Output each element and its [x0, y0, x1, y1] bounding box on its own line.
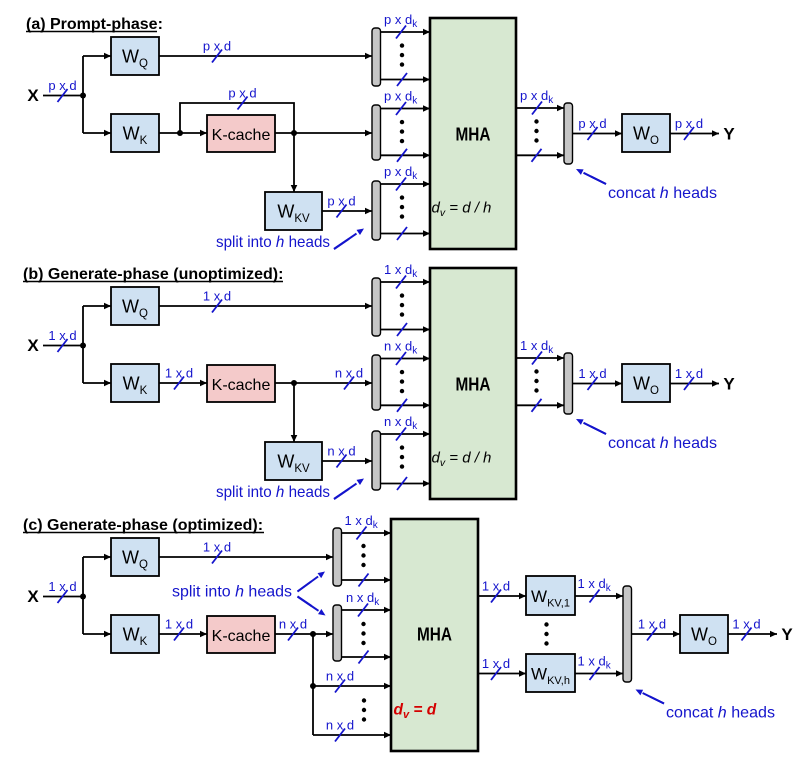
svg-text:1 x d: 1 x d: [578, 366, 606, 381]
slash on split bar 2 bottom wire (a): [397, 149, 407, 162]
slash on MHA bottom output (b): [532, 399, 542, 412]
wire split bar 1 bottom to MHA (a): [381, 76, 431, 83]
svg-text:1 x d: 1 x d: [165, 366, 193, 381]
wire split bar 2 bottom to MHA (a): [381, 152, 431, 159]
block WKV (b): [265, 442, 322, 480]
split bar 2 (b): [372, 355, 381, 410]
wire split bar 1 bottom to MHA (b): [381, 326, 431, 333]
slash on split bar 1 bottom wire (c): [359, 574, 369, 587]
block WQ (c): [111, 538, 159, 576]
wire V row 1 to MHA (c): [313, 683, 391, 690]
label 1 x d on MHA output 1 (c): [482, 579, 510, 603]
svg-text:dv = d: dv = d: [394, 702, 437, 722]
block WO (a): [622, 114, 670, 152]
ellipsis MHA output (a): [534, 119, 538, 142]
wire K-cache to split bar 2 (b): [275, 380, 372, 387]
wire WKV to split bar 3 (b): [322, 458, 372, 465]
section b title: [23, 266, 283, 283]
wire MHA output bottom to concat bar (a): [516, 152, 564, 159]
svg-text:K-cache: K-cache: [212, 628, 271, 645]
arrow to split bar 1 (c): [298, 572, 326, 592]
wire X branch vertical (a): [82, 56, 84, 133]
junction X branch (b): [80, 343, 86, 349]
wire K-cache bypass (a): [180, 103, 294, 133]
wire WQ to split bar 1 (c): [159, 554, 333, 561]
ellipsis split bar 1 (b): [400, 293, 404, 316]
svg-text:K-cache: K-cache: [212, 377, 271, 394]
wire concat bar to WO (b): [573, 380, 623, 387]
svg-text:1 x d: 1 x d: [203, 289, 231, 304]
ellipsis between WKV blocks (c): [544, 622, 548, 645]
section a title: [26, 16, 163, 33]
wire split bar 1 top to MHA (a): [381, 29, 431, 36]
wire MHA output bottom to concat bar (b): [516, 402, 564, 409]
split bar 1 (c): [333, 528, 342, 586]
label 1 x dk on split bar 1 output (c): [345, 513, 379, 540]
wire split bar 2 top to MHA (c): [342, 607, 392, 614]
label n x d on K-cache output (b): [335, 366, 363, 390]
wire split bar 3 top to MHA (b): [381, 431, 431, 438]
wire MHA to WKV1 (c): [478, 593, 526, 600]
label 1 x d on X wire (b): [48, 328, 76, 352]
svg-text:p x d: p x d: [675, 116, 703, 131]
label n x d dk on split bar 3 output (b): [384, 414, 418, 441]
block K-cache (a): [207, 115, 275, 152]
wire X to branch (c): [43, 596, 83, 598]
wire split bar 2 top to MHA (a): [381, 105, 431, 112]
label 1 x d on WQ output (c): [203, 540, 231, 564]
block WKVh (c): [526, 654, 575, 692]
label 1 x d on Y wire (c): [732, 617, 760, 641]
split bar 2 (c): [333, 605, 342, 661]
svg-text:n x d: n x d: [327, 444, 355, 459]
arrow to concat bar (c): [636, 690, 665, 704]
concat bar (b): [564, 353, 573, 414]
svg-text:n x d: n x d: [335, 366, 363, 381]
svg-text:p x d: p x d: [228, 86, 256, 101]
wire WK to K-cache (b): [159, 380, 207, 387]
wire WO to Y (a): [670, 130, 719, 137]
svg-text:concat h heads: concat h heads: [666, 705, 775, 722]
svg-text:split into h heads: split into h heads: [216, 484, 330, 501]
slash on split bar 1 bottom wire (b): [397, 323, 407, 336]
ellipsis MHA output (b): [534, 369, 538, 392]
wire WO to Y (c): [728, 631, 777, 638]
junction WK output (a): [177, 130, 183, 136]
wire WKV1 to concat bar (c): [575, 593, 623, 600]
label p x d on concat output (a): [578, 116, 606, 140]
wire split bar 2 bottom to MHA (c): [342, 654, 392, 661]
svg-text:Y: Y: [781, 625, 793, 644]
svg-text:Y: Y: [723, 125, 735, 144]
slash on split bar 3 bottom wire (b): [397, 477, 407, 490]
svg-text:split into h heads: split into h heads: [216, 234, 330, 251]
block WKV1 (c): [526, 576, 575, 615]
svg-text:(a) Prompt-phase:: (a) Prompt-phase:: [26, 16, 163, 33]
label p x d dk on split bar 2 output (a): [384, 89, 418, 116]
svg-text:1 x d: 1 x d: [675, 366, 703, 381]
label p x d on X wire (a): [48, 78, 76, 102]
svg-text:X: X: [27, 587, 39, 606]
svg-text:1 x d: 1 x d: [48, 579, 76, 594]
wire branch to WK (a): [83, 130, 111, 137]
ellipsis split bar 2 (a): [400, 120, 404, 143]
wire down from K junction (c): [312, 634, 314, 686]
slash on split bar 1 bottom wire (a): [397, 73, 407, 86]
block WO (c): [680, 615, 728, 653]
split bar 3 (b): [372, 431, 381, 490]
wire WKVh to concat bar (c): [575, 670, 623, 677]
block MHA (c): [391, 519, 478, 751]
wire X branch vertical (c): [82, 557, 84, 634]
wire branch to WQ (c): [83, 554, 111, 561]
block WQ (b): [111, 287, 159, 325]
block MHA (a): [430, 18, 516, 249]
svg-text:1 x d: 1 x d: [482, 656, 510, 671]
wire X branch vertical (b): [82, 306, 84, 383]
slash on split bar 3 bottom wire (a): [397, 227, 407, 240]
svg-text:1 x d: 1 x d: [165, 617, 193, 632]
label 1 x dk on WKVh output (c): [578, 654, 612, 681]
label on WKV output (b): [327, 444, 355, 468]
junction K-cache output (c): [310, 631, 316, 637]
ellipsis split bar 1 (a): [400, 43, 404, 66]
wire concat bar to WO (a): [573, 130, 623, 137]
svg-text:p x d: p x d: [578, 116, 606, 131]
svg-text:p x d: p x d: [48, 78, 76, 93]
ellipsis split bar 2 (c): [361, 622, 365, 645]
ellipsis split bar 3 (a): [400, 195, 404, 218]
slash on split bar 2 bottom wire (c): [359, 651, 369, 664]
svg-text:1 x d: 1 x d: [203, 540, 231, 555]
wire V row 2 to MHA (c): [313, 732, 391, 739]
wire X to branch (a): [43, 95, 83, 97]
wire split bar 2 top to MHA (b): [381, 355, 431, 362]
wire split bar 1 top to MHA (c): [342, 530, 392, 537]
label 1 x d dk on split bar 1 output (b): [384, 262, 418, 289]
svg-text:concat h heads: concat h heads: [608, 185, 717, 202]
split bar 1 (b): [372, 278, 381, 336]
wire down to V row 2 (c): [312, 686, 314, 735]
svg-text:(b) Generate-phase (unoptimize: (b) Generate-phase (unoptimized):: [23, 266, 283, 283]
wire WK to K-cache (c): [159, 631, 207, 638]
label p x d dk on split bar 1 output (a): [384, 12, 418, 39]
ellipsis V rows (c): [362, 698, 366, 721]
svg-text:MHA: MHA: [456, 125, 491, 145]
wire MHA output top to concat bar (b): [516, 355, 564, 362]
svg-text:(c) Generate-phase (optimized): (c) Generate-phase (optimized):: [23, 517, 263, 534]
block WK (c): [111, 615, 159, 653]
wire WK to K-cache (a): [159, 130, 207, 137]
label p x d on Y wire (a): [675, 116, 703, 140]
label p x d on bypass wire (a): [228, 86, 256, 110]
ellipsis split bar 2 (b): [400, 370, 404, 393]
svg-text:1 x d: 1 x d: [482, 579, 510, 594]
wire split bar 3 top to MHA (a): [381, 181, 431, 188]
svg-text:1 x d: 1 x d: [48, 328, 76, 343]
label on MHA output (a): [520, 88, 554, 115]
junction K-cache output (a): [291, 130, 297, 136]
svg-text:n x d: n x d: [326, 669, 354, 684]
wire branch to WQ (b): [83, 303, 111, 310]
wire MHA to WKVh (c): [478, 670, 526, 677]
wire split bar 1 top to MHA (b): [381, 279, 431, 286]
svg-text:n x d: n x d: [326, 718, 354, 733]
wire WKV to split bar 3 (a): [322, 208, 372, 215]
junction X branch (a): [80, 93, 86, 99]
ellipsis split bar 1 (c): [361, 544, 365, 567]
ellipsis split bar 3 (b): [400, 445, 404, 468]
svg-text:X: X: [27, 86, 39, 105]
wire K-cache to split bar 2 (a): [275, 130, 372, 137]
wire split bar 3 bottom to MHA (a): [381, 230, 431, 237]
svg-text:X: X: [27, 336, 39, 355]
label 1 x dk on WKV1 output (c): [578, 576, 612, 603]
svg-text:1 x d: 1 x d: [638, 617, 666, 632]
label n x d on V row 2 (c): [326, 718, 354, 742]
label p x d on WQ output (a): [203, 39, 231, 63]
svg-text:MHA: MHA: [417, 625, 452, 645]
wire branch to WQ (a): [83, 53, 111, 60]
wire WQ to split bar 1 (b): [159, 303, 372, 310]
block WQ (a): [111, 37, 159, 75]
arrow to split bar 2 (c): [298, 597, 326, 616]
wire split bar 1 bottom to MHA (c): [342, 577, 392, 584]
svg-text:split into h heads: split into h heads: [172, 584, 292, 601]
split bar 2 (a): [372, 105, 381, 160]
block WKV (a): [265, 192, 322, 230]
svg-text:K-cache: K-cache: [212, 127, 271, 144]
arrow to concat bar (b): [576, 419, 606, 434]
label n x dk on split bar 2 output (c): [346, 590, 380, 617]
arrow to split bar 3 (a): [334, 229, 364, 250]
arrow to split bar 3 (b): [334, 479, 364, 500]
wire branch to WK (c): [83, 631, 111, 638]
label n x d on V row 1 (c): [326, 669, 354, 693]
block K-cache (b): [207, 365, 275, 402]
junction V row (c): [310, 683, 316, 689]
wire down to WKV (b): [291, 383, 298, 442]
svg-text:p x d: p x d: [327, 194, 355, 209]
arrow to concat bar (a): [576, 169, 606, 184]
label on WKV output (a): [327, 194, 355, 218]
junction X branch (c): [80, 594, 86, 600]
wire branch to WK (b): [83, 380, 111, 387]
wire X to branch (b): [43, 345, 83, 347]
label 1 x d on WK-to-K-cache wire (b): [165, 366, 193, 390]
label n x d dk on split bar 2 output (b): [384, 339, 418, 366]
block WK (a): [111, 114, 159, 152]
label p x d dk on split bar 3 output (a): [384, 164, 418, 191]
section c title: [23, 517, 264, 534]
block MHA (b): [430, 268, 516, 499]
label 1 x d on WK output (c): [165, 617, 193, 641]
block WO (b): [622, 364, 670, 402]
junction K-cache output (b): [291, 380, 297, 386]
svg-text:concat h heads: concat h heads: [608, 435, 717, 452]
block K-cache (c): [207, 616, 275, 653]
wire K-cache to split bar 2 (c): [275, 631, 333, 638]
wire down to WKV (a): [291, 133, 298, 192]
label 1 x d on X wire (c): [48, 579, 76, 603]
label n x d on K-cache output (c): [279, 617, 307, 641]
svg-text:Y: Y: [723, 375, 735, 394]
wire split bar 2 bottom to MHA (b): [381, 402, 431, 409]
label 1 x d on concat output (c): [638, 617, 666, 641]
svg-text:p x d: p x d: [203, 39, 231, 54]
concat bar (c): [623, 586, 632, 682]
block WK (b): [111, 364, 159, 402]
label 1 x d on WQ output (b): [203, 289, 231, 313]
slash on MHA bottom output (a): [532, 149, 542, 162]
label on MHA output (b): [520, 338, 554, 365]
slash on split bar 2 bottom wire (b): [397, 399, 407, 412]
label 1 x d on MHA output 2 (c): [482, 656, 510, 680]
label 1 x d on concat output (b): [578, 366, 606, 390]
svg-text:n x d: n x d: [279, 617, 307, 632]
svg-text:MHA: MHA: [456, 375, 491, 395]
wire split bar 3 bottom to MHA (b): [381, 480, 431, 487]
split bar 1 (a): [372, 28, 381, 86]
svg-text:1 x d: 1 x d: [732, 617, 760, 632]
label 1 x d on Y wire (b): [675, 366, 703, 390]
wire WO to Y (b): [670, 380, 719, 387]
wire WQ to split bar 1 (a): [159, 53, 372, 60]
concat bar (a): [564, 103, 573, 164]
wire MHA output top to concat bar (a): [516, 105, 564, 112]
wire concat bar to WO (c): [632, 631, 681, 638]
split bar 3 (a): [372, 181, 381, 240]
